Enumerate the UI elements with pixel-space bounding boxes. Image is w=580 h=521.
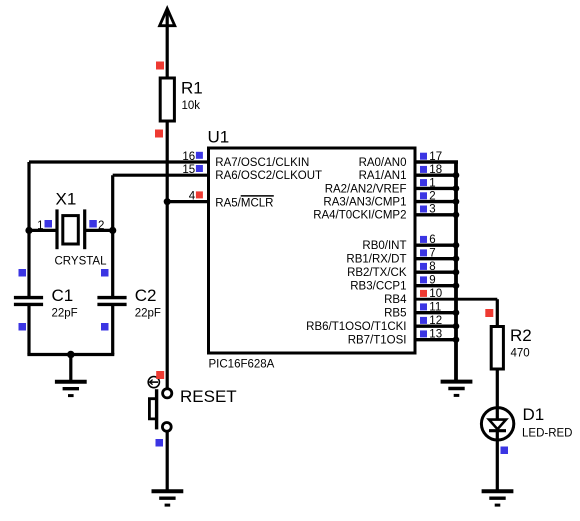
pin marker 10 [420,290,427,297]
wire to crystal pin1 [29,229,57,232]
wire pin 2 stub [415,200,458,203]
pin marker 1 [420,179,427,186]
svg-text:12: 12 [429,315,442,327]
wire crystal right vertical [111,175,114,297]
pin marker red below R1 [155,130,163,138]
wire pin 1 stub [415,187,458,190]
wire to crystal ground [69,355,72,384]
svg-text:9: 9 [429,275,435,287]
pin marker C2 top [101,269,109,277]
wire pin 18 stub [415,173,458,176]
pin marker 12 [420,317,427,324]
svg-text:2: 2 [98,220,104,232]
resistor R1 [160,78,174,121]
wire LED to ground [496,432,499,493]
svg-text:RA4/T0CKI/CMP2: RA4/T0CKI/CMP2 [313,210,406,222]
svg-text:13: 13 [429,329,442,341]
svg-text:3: 3 [429,204,435,216]
wire RA7 to crystal left [29,160,209,163]
pin marker crystal 2 [89,220,97,228]
svg-text:RA1/AN1: RA1/AN1 [359,170,407,182]
svg-text:RB3/CCP1: RB3/CCP1 [350,281,406,293]
svg-text:RA2/AN2/VREF: RA2/AN2/VREF [325,183,407,195]
pin marker 16 [196,152,203,159]
svg-text:RB7/T1OSI: RB7/T1OSI [348,335,407,347]
svg-text:RB5: RB5 [384,308,406,320]
pin marker 2 [420,192,427,199]
junction MCLR node [164,198,171,205]
pin marker 15 [196,165,203,172]
junction crystal pin1 node [25,227,32,234]
pin marker 17 [420,153,427,160]
junction crystal pin2 node [109,227,116,234]
svg-text:R2: R2 [510,326,532,345]
junction pin 11 on bus [453,309,460,316]
svg-text:R1: R1 [181,79,203,98]
wire pin 7 stub [415,257,458,260]
pin marker 11 [420,303,427,310]
junction pin 18 on bus [453,172,460,179]
ground crystal [55,382,87,396]
svg-text:7: 7 [429,248,435,260]
wire main vertical VCC-R1-MCLR-RESET [166,10,169,390]
svg-text:D1: D1 [523,405,545,424]
wire bottom join C1-C2 [27,353,114,356]
wire C2 bottom [111,304,114,354]
svg-text:X1: X1 [56,190,77,209]
svg-text:15: 15 [182,164,195,176]
pin marker red above R2 [485,309,493,317]
svg-text:RB4: RB4 [384,294,407,306]
svg-text:RB1/RX/DT: RB1/RX/DT [346,254,406,266]
junction pin 8 on bus [453,269,460,276]
wire pin 13 stub [415,338,458,341]
junction pin 2 on bus [453,198,460,205]
junction ground tap node [67,351,75,359]
svg-text:1: 1 [37,220,43,232]
svg-text:RA7/OSC1/CLKIN: RA7/OSC1/CLKIN [215,157,309,169]
pin marker 9 [420,276,427,283]
pin marker red above R1 [156,62,164,70]
wire ground bus vertical [454,162,458,383]
svg-text:C1: C1 [52,286,74,305]
svg-text:PIC16F628A: PIC16F628A [209,359,275,371]
svg-text:2: 2 [429,191,435,203]
pin marker 7 [420,249,427,256]
wire pin 12 stub [415,325,458,328]
LED D1 [481,408,513,440]
pin marker red RESET top [156,371,164,379]
svg-text:18: 18 [429,164,442,176]
pin marker 4 [196,191,203,198]
actuator marker circle [148,377,159,388]
svg-text:10: 10 [429,288,442,300]
svg-text:1: 1 [429,177,435,189]
svg-text:11: 11 [429,302,441,314]
svg-text:C2: C2 [135,286,157,305]
resistor R2 [491,327,503,370]
wire pin 17 stub [415,160,458,163]
svg-text:6: 6 [429,234,435,246]
crystal X1 [57,209,85,249]
svg-text:8: 8 [429,261,435,273]
svg-text:RA5/MCLR: RA5/MCLR [215,198,273,210]
wire R2 to LED [496,369,499,409]
wire RB4 corner down to R2 [496,299,499,327]
svg-text:16: 16 [182,151,195,163]
junction pin 3 on bus [453,212,460,219]
junction pin 9 on bus [453,282,460,289]
wire RB4 to R2 horizontal [415,298,497,301]
pin marker C1 bottom [19,323,27,331]
svg-text:10k: 10k [182,100,201,112]
pin marker blue below D1 [501,447,509,455]
wire from crystal pin2 [85,229,113,232]
svg-text:RA0/AN0: RA0/AN0 [359,157,407,169]
junction pin 7 on bus [453,255,460,262]
wire pin 8 stub [415,271,458,274]
junction pin 12 on bus [453,323,460,330]
pin marker 3 [420,206,427,213]
junction pin 1 on bus [453,185,460,192]
pin marker C1 top [19,269,27,277]
wire RESET to ground [166,429,169,493]
svg-text:RB6/T1OSO/T1CKI: RB6/T1OSO/T1CKI [306,321,406,333]
svg-text:RB2/TX/CK: RB2/TX/CK [347,267,407,279]
op: chip body U1 [209,148,416,353]
pin marker crystal 1 [45,220,53,228]
wire pin 3 stub [415,213,458,216]
wire C1 bottom [27,304,30,354]
pin marker 13 [420,330,427,337]
svg-text:U1: U1 [208,128,230,147]
svg-text:4: 4 [189,191,196,203]
switch RESET pushbutton [149,389,171,432]
svg-text:CRYSTAL: CRYSTAL [55,256,108,268]
capacitor C2 [97,298,126,305]
svg-text:17: 17 [429,151,442,163]
power VCC arrow [160,9,175,26]
wire RA6 to crystal right [113,174,209,177]
svg-text:RA6/OSC2/CLKOUT: RA6/OSC2/CLKOUT [215,170,322,182]
wire crystal left vertical [27,162,30,298]
svg-text:470: 470 [511,348,530,360]
wire pin 9 stub [415,284,458,287]
svg-text:LED-RED: LED-RED [522,427,572,439]
junction pin 6 on bus [453,242,460,249]
svg-text:22pF: 22pF [52,308,78,320]
pin marker 6 [420,236,427,243]
pin marker 8 [420,263,427,270]
capacitor C1 [14,298,43,305]
svg-text:RA3/AN3/CMP1: RA3/AN3/CMP1 [323,197,406,209]
wire pin 11 stub [415,311,458,314]
pin marker C2 bottom [101,323,109,331]
ground RESET [152,491,184,505]
pin marker 18 [420,166,427,173]
svg-text:RB0/INT: RB0/INT [362,240,406,252]
svg-text:RESET: RESET [180,387,237,406]
wire pin 6 stub [415,243,458,246]
junction pin 13 on bus [453,336,460,343]
pin marker blue RESET bottom [156,439,164,447]
ground LED [482,491,514,505]
svg-text:22pF: 22pF [135,308,161,320]
ground bus [441,382,473,396]
wire RA5/MCLR stub [167,200,208,203]
